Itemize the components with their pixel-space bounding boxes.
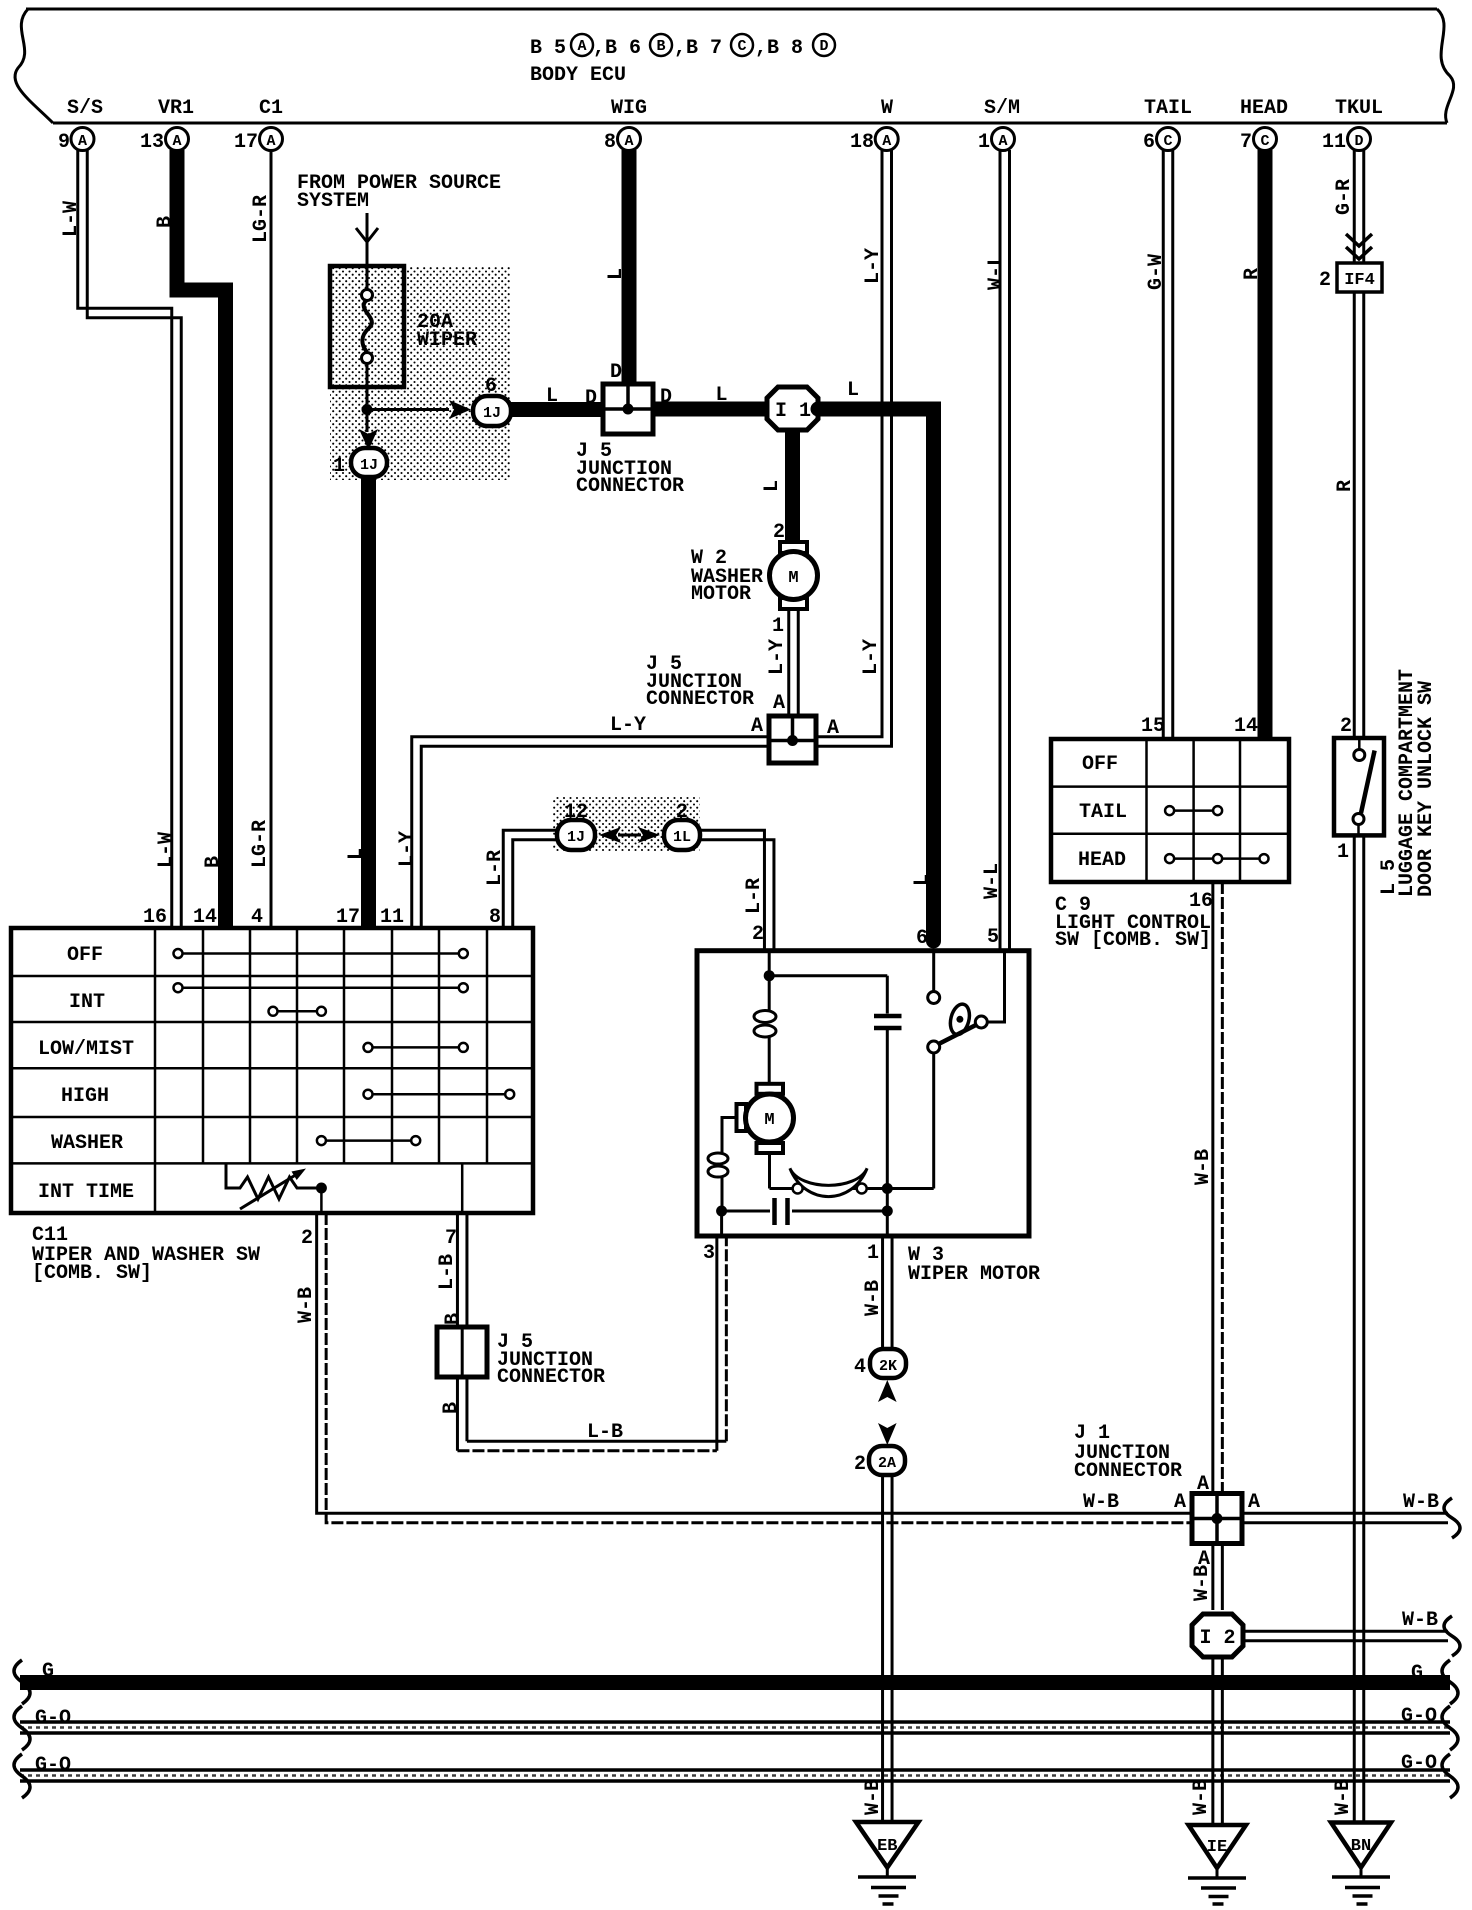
park contacts: [793, 1184, 803, 1194]
svg-text:4: 4: [251, 906, 263, 929]
OFF row contact: [178, 952, 463, 955]
svg-text:16: 16: [143, 906, 167, 929]
wire L (thick) from I1 down to washer motor pin 2: [785, 430, 800, 548]
wire L-Y from W pin 18 down and left to J5 junction connector: [816, 150, 892, 746]
svg-text:A: A: [172, 133, 181, 150]
junction node bottom left: [716, 1206, 727, 1217]
ground BN: [1331, 1823, 1391, 1868]
wire L (thick) from 1J pin 1 down to switch pin 17: [361, 476, 376, 926]
L-B wire stub inside table from WASHER row to pin 7: [461, 1163, 464, 1213]
svg-text:TKUL: TKUL: [1335, 97, 1383, 120]
svg-text:W-B: W-B: [1191, 1565, 1214, 1601]
svg-text:A: A: [1248, 1491, 1260, 1514]
svg-text:I 1: I 1: [775, 400, 811, 423]
svg-text:W-B: W-B: [1332, 1779, 1355, 1815]
svg-text:2: 2: [1340, 715, 1352, 738]
svg-text:16: 16: [1189, 890, 1213, 913]
svg-text:OFF: OFF: [67, 944, 103, 967]
svg-text:1J: 1J: [483, 405, 501, 422]
svg-text:6: 6: [916, 927, 928, 950]
svg-text:2: 2: [752, 923, 764, 946]
wire W-B from J1 down to I2: [1213, 1544, 1223, 1611]
svg-text:D: D: [1354, 133, 1363, 150]
svg-text:17: 17: [336, 906, 360, 929]
svg-text:[COMB. SW]: [COMB. SW]: [32, 1262, 152, 1285]
wire down from node to connector 1J pin 1 with arrow: [366, 410, 369, 433]
fuse 20A WIPER: [330, 266, 404, 387]
field coil upper: [768, 976, 771, 1010]
svg-text:1: 1: [1337, 841, 1349, 864]
svg-text:LG-R: LG-R: [249, 820, 272, 868]
svg-text:WASHER: WASHER: [51, 1132, 123, 1155]
svg-text:WIG: WIG: [611, 97, 647, 120]
svg-text:L: L: [345, 848, 368, 860]
connector IF4: [1337, 263, 1382, 292]
svg-text:C: C: [737, 38, 746, 55]
wire L (thick) from J5 to junction I1: [653, 402, 770, 417]
svg-text:7: 7: [445, 1227, 457, 1250]
svg-text:B: B: [656, 38, 665, 55]
svg-text:L-B: L-B: [587, 1421, 623, 1444]
svg-text:A: A: [266, 133, 275, 150]
svg-text:G-R: G-R: [1333, 179, 1356, 215]
svg-text:14: 14: [1234, 715, 1258, 738]
ground IE: [1189, 1825, 1247, 1868]
svg-text:18: 18: [850, 131, 874, 154]
park switch fixed contact from pin 6: [932, 953, 935, 991]
svg-text:1: 1: [333, 455, 345, 478]
svg-text:SW [COMB. SW]: SW [COMB. SW]: [1055, 929, 1211, 952]
junction connector I1 (octagon): [767, 387, 818, 430]
svg-text:B: B: [202, 856, 225, 868]
svg-text:2: 2: [854, 1453, 866, 1476]
svg-text:INT: INT: [69, 991, 105, 1014]
svg-text:A: A: [998, 133, 1007, 150]
svg-text:,B 7: ,B 7: [674, 37, 722, 60]
wire L (thick) from I1 right then down to wiper motor pin 6: [818, 409, 934, 941]
svg-text:W-B: W-B: [1192, 1149, 1215, 1185]
wire W-B from I2 down to IE ground: [1213, 1657, 1223, 1825]
svg-text:W-B: W-B: [295, 1287, 318, 1323]
svg-text:L-R: L-R: [484, 850, 507, 886]
wire L-W from S/S pin 9 to switch pin 16 (thin double line with jog): [78, 150, 182, 926]
svg-text:HIGH: HIGH: [61, 1085, 109, 1108]
svg-text:HEAD: HEAD: [1078, 849, 1126, 872]
lever arm wiring to pin 5 and park line: [987, 951, 1004, 1022]
TAIL row contact: [1170, 809, 1218, 812]
wavy break at right end of W-B: [1444, 1498, 1460, 1538]
svg-text:L: L: [761, 480, 784, 492]
svg-text:MOTOR: MOTOR: [691, 583, 751, 606]
svg-text:S/M: S/M: [984, 97, 1020, 120]
wire R (thick) from HEAD pin 7 to light control sw pin 14: [1258, 150, 1273, 740]
wire L-Y from J5 left to switch pin 11: [412, 737, 769, 926]
svg-text:L-Y: L-Y: [610, 714, 646, 737]
svg-text:L: L: [715, 384, 727, 407]
wire L-R from 1L pin 2 to wiper motor pin 2: [700, 830, 774, 950]
svg-text:I 2: I 2: [1199, 1627, 1235, 1650]
svg-text:17: 17: [234, 131, 258, 154]
svg-text:G-O: G-O: [35, 1754, 71, 1777]
junction node at capacitor bottom: [882, 1206, 893, 1217]
svg-text:IE: IE: [1207, 1838, 1227, 1857]
park switch lever: [934, 1022, 982, 1046]
svg-text:9: 9: [58, 131, 70, 154]
svg-text:L-Y: L-Y: [766, 639, 789, 675]
svg-text:W-B: W-B: [862, 1280, 885, 1316]
svg-text:1: 1: [772, 615, 784, 638]
svg-text:DOOR KEY UNLOCK SW: DOOR KEY UNLOCK SW: [1415, 681, 1438, 897]
mating arrows between 2K and 2A: [878, 1380, 897, 1402]
INT row contacts: [178, 986, 463, 989]
wire L-B from J5 bottom, right and up to wiper motor pin 3: [457, 1236, 726, 1451]
svg-text:14: 14: [193, 906, 217, 929]
power feed arrow into fuse: [366, 213, 369, 266]
svg-text:D: D: [610, 361, 622, 384]
stipple region around 1J/1L connector pair: [553, 797, 700, 851]
inline connector arrows above IF4: [1346, 234, 1372, 259]
stipple region around fuse: [330, 266, 510, 480]
pin 3 lead: [720, 1211, 723, 1236]
svg-text:,B 6: ,B 6: [593, 37, 641, 60]
svg-text:A: A: [577, 38, 586, 55]
svg-text:A: A: [827, 717, 839, 740]
svg-text:VR1: VR1: [158, 97, 194, 120]
wire G-W from TAIL pin 6 to light control sw pin 15: [1163, 150, 1173, 740]
svg-text:W-B: W-B: [1403, 1491, 1439, 1514]
svg-text:WIPER: WIPER: [417, 329, 477, 352]
pin 1 lead: [886, 1211, 889, 1236]
field coil lower from motor left terminal: [722, 1118, 737, 1154]
svg-text:C: C: [1163, 133, 1172, 150]
junction node below fuse: [362, 404, 373, 415]
wire W-B from J1 right to edge: [1242, 1513, 1448, 1523]
ground EB: [856, 1822, 919, 1868]
svg-text:1J: 1J: [360, 457, 378, 474]
svg-text:8: 8: [489, 906, 501, 929]
svg-text:BN: BN: [1351, 1837, 1371, 1856]
wire LG-R from C1 pin 17 to switch pin 4 (single thin line): [270, 150, 273, 926]
svg-text:SYSTEM: SYSTEM: [297, 190, 369, 213]
svg-text:1J: 1J: [567, 829, 585, 846]
wiper and washer switch C11 table: [11, 928, 533, 1213]
svg-text:L: L: [546, 385, 558, 408]
wire W-B from 2A down to EB ground: [883, 1475, 893, 1822]
svg-text:8: 8: [604, 131, 616, 154]
svg-text:A: A: [773, 692, 785, 715]
svg-text:13: 13: [140, 131, 164, 154]
wiper motor M: [757, 1084, 784, 1094]
svg-text:L: L: [847, 379, 859, 402]
svg-text:M: M: [764, 1111, 774, 1130]
junction connector I2 (octagon): [1192, 1614, 1243, 1657]
svg-text:A: A: [78, 133, 87, 150]
svg-text:CONNECTOR: CONNECTOR: [1074, 1460, 1182, 1483]
wire W-L from S/M pin 1 to wiper motor pin 5: [1000, 150, 1010, 951]
J5 junction connector (bottom): [437, 1327, 487, 1377]
svg-text:L: L: [911, 874, 934, 886]
wire L (thick) from 1J pin 6 to J5 junction connector: [510, 402, 604, 417]
svg-text:CONNECTOR: CONNECTOR: [576, 475, 684, 498]
svg-text:INT TIME: INT TIME: [38, 1181, 134, 1204]
svg-text:L-Y: L-Y: [396, 831, 419, 867]
park cam crescent: [790, 1168, 867, 1196]
svg-text:B: B: [442, 1313, 465, 1325]
svg-text:S/S: S/S: [67, 97, 103, 120]
wire L (thick) from WIG pin 8 down to J5 junction connector: [622, 150, 637, 386]
svg-text:3: 3: [703, 1242, 715, 1265]
svg-text:TAIL: TAIL: [1144, 97, 1192, 120]
svg-text:M: M: [788, 569, 798, 588]
svg-text:C: C: [1260, 133, 1269, 150]
svg-text:W-B: W-B: [1402, 1609, 1438, 1632]
svg-text:IF4: IF4: [1344, 271, 1375, 290]
washer motor W2: [780, 542, 807, 553]
svg-text:EB: EB: [877, 1837, 897, 1856]
svg-text:11: 11: [1322, 131, 1346, 154]
svg-text:6: 6: [1143, 131, 1155, 154]
svg-text:L-W: L-W: [155, 832, 178, 868]
svg-text:7: 7: [1240, 131, 1252, 154]
HIGH row contact: [368, 1093, 510, 1096]
svg-text:G-W: G-W: [1145, 254, 1168, 290]
svg-text:W-B: W-B: [1190, 1779, 1213, 1815]
body ECU bus band: [15, 9, 1454, 123]
svg-text:L-Y: L-Y: [862, 248, 885, 284]
svg-text:HEAD: HEAD: [1240, 97, 1288, 120]
wire W-B from luggage sw pin 1 down to BN ground: [1354, 835, 1364, 1822]
svg-text:15: 15: [1141, 715, 1165, 738]
svg-text:W-L: W-L: [985, 254, 1008, 290]
svg-text:A: A: [751, 715, 763, 738]
svg-text:W: W: [881, 97, 893, 120]
svg-text:W-B: W-B: [862, 1779, 885, 1815]
wire from node to connector 1J pin 6 with arrow: [367, 408, 449, 411]
svg-text:,B 8: ,B 8: [755, 37, 803, 60]
wire W-B from switch pin 2 down and right to J1 junction connector: [317, 1213, 1192, 1523]
svg-text:1: 1: [867, 1242, 879, 1265]
wire W-B from C9 pin 16 down to J1: [1213, 882, 1223, 1494]
svg-text:B 5: B 5: [530, 37, 566, 60]
svg-text:L-W: L-W: [60, 201, 83, 237]
wire L-R from 1J pin 12 to switch pin 8: [503, 830, 557, 926]
svg-text:R: R: [1241, 268, 1264, 280]
junction node on park line: [882, 1183, 893, 1194]
wire B (thick) from VR1 pin 13 to switch pin 14: [177, 150, 226, 926]
svg-text:2A: 2A: [878, 1455, 896, 1472]
svg-text:W-B: W-B: [1083, 1491, 1119, 1514]
svg-text:A: A: [624, 133, 633, 150]
svg-text:G-O: G-O: [1401, 1705, 1437, 1728]
svg-text:D: D: [585, 387, 597, 410]
wire W-B from wiper motor pin 1 down to connector 2K: [883, 1236, 893, 1349]
svg-text:1L: 1L: [673, 829, 691, 846]
svg-text:B: B: [440, 1402, 463, 1414]
svg-text:CONNECTOR: CONNECTOR: [497, 1366, 605, 1389]
INT TIME variable resistor: [226, 1163, 316, 1199]
svg-text:BODY ECU: BODY ECU: [530, 64, 626, 87]
svg-text:L-B: L-B: [436, 1254, 459, 1290]
svg-text:LOW/MIST: LOW/MIST: [38, 1038, 134, 1061]
HEAD row contact: [1170, 857, 1264, 860]
svg-text:L-R: L-R: [743, 878, 766, 914]
mating arrows between 1J and 1L: [599, 827, 621, 843]
svg-text:2: 2: [301, 1227, 313, 1250]
wire L-B from switch pin 7 down to J5 junction connector (bottom): [457, 1213, 467, 1327]
svg-text:CONNECTOR: CONNECTOR: [646, 688, 754, 711]
motor bottom lead to park contact line: [768, 1153, 771, 1189]
svg-text:L: L: [605, 268, 628, 280]
svg-text:C1: C1: [259, 97, 283, 120]
wire L-Y from washer motor pin 1 down to J5 junction connector: [789, 609, 799, 716]
WASHER row contact: [321, 1139, 415, 1142]
svg-text:TAIL: TAIL: [1079, 801, 1127, 824]
wavy break at right end of I2 W-B wire: [1444, 1616, 1460, 1656]
svg-text:2: 2: [1319, 269, 1331, 292]
wire G-R from TKUL pin 11 to connector IF4: [1354, 150, 1364, 263]
svg-text:11: 11: [380, 906, 404, 929]
svg-text:LG-R: LG-R: [250, 195, 273, 243]
svg-text:4: 4: [854, 1356, 866, 1379]
svg-text:OFF: OFF: [1082, 753, 1118, 776]
wiper motor W3 box: [697, 951, 1029, 1236]
svg-text:A: A: [882, 133, 891, 150]
svg-text:W-L: W-L: [981, 863, 1004, 899]
capacitor C (vertical): [886, 976, 889, 1014]
svg-text:B: B: [154, 216, 177, 228]
LOW/MIST row contact: [368, 1046, 463, 1049]
svg-text:L-Y: L-Y: [860, 639, 883, 675]
svg-text:2K: 2K: [879, 1358, 897, 1375]
capacitor (horizontal, bottom): [722, 1210, 770, 1213]
svg-text:1: 1: [978, 131, 990, 154]
svg-text:WIPER MOTOR: WIPER MOTOR: [908, 1263, 1040, 1286]
svg-text:R: R: [1334, 480, 1357, 492]
svg-text:D: D: [819, 38, 828, 55]
svg-text:A: A: [1174, 1491, 1186, 1514]
wire W-B from I2 right to edge: [1243, 1631, 1448, 1641]
wiper motor pin 2 entry line: [768, 951, 771, 976]
park switch cam: [947, 1002, 972, 1036]
svg-text:5: 5: [987, 926, 999, 949]
wire R from IF4 down to luggage sw pin 2: [1354, 292, 1364, 739]
junction node at pin 2: [764, 970, 775, 981]
